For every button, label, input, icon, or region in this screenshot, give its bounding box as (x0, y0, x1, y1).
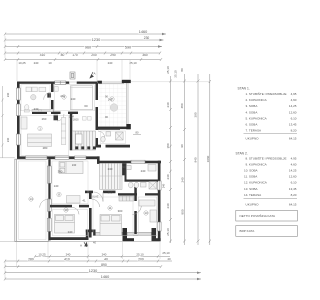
svg-text:300: 300 (118, 209, 123, 213)
wall y194 under bath2 (118, 193, 137, 195)
svg-text:140: 140 (54, 184, 59, 188)
dimension row 4 top segments (4, 52, 161, 55)
svg-text:1460: 1460 (101, 275, 109, 279)
wall bedroom mid x90 (89, 193, 92, 238)
svg-text:9. KUPAONICA: 9. KUPAONICA (246, 162, 268, 166)
svg-text:590: 590 (125, 45, 131, 49)
svg-text:260: 260 (108, 191, 113, 195)
dim right line 1 (169, 76, 172, 243)
svg-text:UKUPNO: UKUPNO (246, 137, 260, 141)
wall lower interior y206 (50, 205, 89, 208)
terrace railing top (99, 82, 124, 84)
svg-text:3. SOBA: 3. SOBA (246, 104, 259, 108)
svg-text:280: 280 (43, 146, 48, 150)
bath1 fixtures right (101, 132, 123, 142)
svg-text:11: 11 (108, 206, 111, 210)
left vertical dim line (2, 86, 4, 158)
svg-text:14,25: 14,25 (289, 104, 297, 108)
kitchen dark bits (54, 115, 59, 121)
svg-text:10: 10 (64, 208, 68, 212)
lower room1 furniture (67, 196, 81, 204)
entry wall lower y192 (85, 191, 116, 194)
svg-text:25,10: 25,10 (136, 253, 144, 257)
door arc bath1 (98, 131, 105, 138)
svg-text:6. SOBA: 6. SOBA (246, 123, 259, 127)
dim right line 3 (197, 74, 200, 245)
extension lines top (5, 36, 130, 81)
kitchen counter (32, 109, 53, 112)
wall bedroom right x135 (134, 187, 137, 234)
skylight rects corridor (83, 117, 92, 121)
svg-text:4,95: 4,95 (291, 156, 297, 160)
section marker A bottom (84, 242, 87, 247)
svg-text:940: 940 (194, 157, 198, 162)
dim row bottom 890 (4, 265, 162, 268)
svg-text:12,60: 12,60 (289, 175, 297, 179)
stairs upper (72, 131, 95, 150)
svg-text:64,15: 64,15 (289, 137, 297, 141)
svg-text:240: 240 (66, 253, 71, 257)
entry door arc (94, 192, 104, 202)
stan 1 rule (244, 132, 298, 134)
svg-text:200: 200 (138, 257, 144, 261)
terrace railing right (126, 83, 128, 124)
interior dim texts (34, 97, 146, 234)
corner bottom right L (152, 228, 161, 241)
svg-text:5. KUPAONICA: 5. KUPAONICA (246, 116, 268, 120)
svg-text:14. TERASA: 14. TERASA (244, 193, 262, 197)
svg-text:2. KUPAONICA: 2. KUPAONICA (246, 98, 268, 102)
wall lower top right y161 (97, 156, 161, 164)
svg-text:260: 260 (42, 117, 47, 121)
svg-text:390: 390 (194, 112, 198, 117)
extension line top wall right (131, 81, 209, 83)
window lower right b (157, 222, 161, 231)
svg-text:7. TERASA: 7. TERASA (246, 129, 262, 133)
svg-text:10,25: 10,25 (18, 61, 26, 65)
window left W2a (16, 88, 20, 100)
terrace bottom edge (15, 241, 161, 243)
pillar bottom (123, 228, 128, 239)
room label bed2 (108, 206, 112, 210)
svg-text:25,10: 25,10 (162, 251, 170, 255)
svg-text:230: 230 (144, 36, 150, 40)
stairs lower (100, 163, 123, 189)
svg-text:240: 240 (141, 169, 146, 173)
svg-text:240: 240 (71, 97, 76, 101)
svg-text:13: 13 (144, 211, 148, 215)
bed mid (100, 215, 122, 236)
window bottom glass doors a (96, 232, 123, 235)
svg-text:960: 960 (85, 45, 91, 49)
svg-text:290: 290 (110, 53, 116, 57)
svg-text:16/30: 16/30 (73, 119, 79, 121)
wall bottom of terrace room (96, 127, 131, 130)
stan 1 items (246, 91, 297, 133)
dim row bottom 1230 (4, 271, 201, 274)
svg-text:41: 41 (82, 199, 86, 203)
pillar terrace top-left (97, 81, 102, 84)
svg-text:890: 890 (101, 263, 107, 267)
wall lower right outer x158 (158, 161, 161, 241)
extension stub left mid (0, 157, 15, 159)
wall top outer (17, 82, 97, 84)
svg-text:240: 240 (68, 230, 73, 234)
room label terrace (29, 197, 33, 201)
bath1 fixtures room top-left (24, 87, 46, 112)
svg-text:240: 240 (166, 174, 170, 179)
door arc right bedroom (132, 206, 141, 215)
window annotation mid right (133, 134, 141, 136)
terrace circle table (110, 104, 118, 112)
wardrobe mid bedroom (119, 196, 134, 201)
extension stub left bottom (0, 241, 15, 243)
door arc mid bedroom (92, 199, 100, 207)
svg-text:A: A (94, 72, 96, 76)
svg-text:240: 240 (6, 92, 10, 97)
netto box (236, 210, 298, 221)
window annotation left (6, 92, 10, 142)
svg-text:240: 240 (162, 183, 166, 188)
svg-text:180: 180 (166, 143, 170, 148)
dim right line 2 (183, 74, 186, 245)
svg-text:240: 240 (166, 203, 170, 208)
svg-text:A: A (80, 244, 82, 248)
svg-text:1230: 1230 (92, 38, 100, 42)
svg-text:240: 240 (102, 253, 107, 257)
room label bed1 (64, 208, 68, 212)
svg-text:240: 240 (6, 137, 10, 142)
svg-text:410: 410 (40, 53, 46, 57)
svg-text:1460: 1460 (139, 30, 147, 34)
door arc corridor (57, 114, 64, 121)
stair posts (75, 146, 96, 149)
wall bath1 horizontal y128 (98, 128, 120, 130)
window bottom glass doors b (127, 232, 152, 235)
pillar top right (122, 80, 131, 83)
svg-text:240: 240 (108, 61, 113, 65)
bath2 wall bottom y180 (125, 180, 159, 182)
section marker A top (90, 72, 93, 78)
shaft block (47, 93, 51, 97)
brp box (236, 226, 298, 237)
door gap top (69, 81, 77, 83)
stan 2 items (244, 155, 297, 197)
svg-text:13,45: 13,45 (289, 123, 297, 127)
svg-text:80: 80 (180, 68, 184, 72)
svg-text:90: 90 (122, 165, 126, 169)
svg-text:240: 240 (34, 107, 39, 111)
bath2 fixtures (127, 165, 157, 190)
svg-text:11. SOBA: 11. SOBA (244, 175, 258, 179)
dim right line 4 (209, 74, 211, 245)
wall mid dividing y157 (17, 156, 100, 159)
svg-text:4,95: 4,95 (291, 92, 297, 96)
svg-text:4,60: 4,60 (291, 162, 297, 166)
room label 1 (29, 95, 148, 215)
svg-text:25,10: 25,10 (129, 61, 137, 65)
svg-text:1060: 1060 (206, 155, 210, 162)
svg-text:240: 240 (34, 61, 39, 65)
svg-text:240: 240 (181, 177, 185, 182)
room2 small cab (54, 87, 58, 92)
window mid wall a (26, 156, 48, 159)
svg-text:8,20: 8,20 (291, 193, 297, 197)
svg-text:14: 14 (29, 197, 33, 201)
svg-text:6,10: 6,10 (291, 116, 297, 120)
svg-text:4,60: 4,60 (291, 98, 297, 102)
wall left outer upper (17, 82, 20, 158)
room label 2 (62, 95, 66, 99)
wall interior vertical x96 (96, 83, 99, 147)
dim mini row bottom (34, 255, 170, 258)
dim row bottom segments (4, 260, 172, 263)
svg-text:13,45: 13,45 (289, 187, 297, 191)
svg-text:14,25: 14,25 (289, 169, 297, 173)
window mid wall b (55, 156, 86, 159)
svg-text:410: 410 (64, 257, 70, 261)
terrace dim texts (105, 95, 113, 120)
svg-text:STAN 1.: STAN 1. (238, 87, 250, 91)
window lower right a (157, 181, 161, 190)
svg-text:240: 240 (166, 102, 170, 107)
door arc room1 (72, 207, 79, 214)
window lower left a (47, 166, 51, 183)
bath2 wall left x125 (125, 163, 127, 180)
svg-text:8,20: 8,20 (291, 129, 297, 133)
living table (21, 117, 52, 146)
room floor outlines (21, 85, 157, 236)
svg-text:25,10: 25,10 (174, 70, 178, 78)
svg-text:UKUPNO: UKUPNO (246, 202, 260, 206)
svg-text:25,10: 25,10 (166, 66, 170, 74)
wall bath1 bottom y145 (96, 145, 131, 148)
svg-text:90: 90 (180, 144, 184, 148)
window left W2b (16, 104, 20, 116)
room label bed3 (144, 211, 148, 215)
room label 3 (110, 97, 114, 101)
svg-text:13. SOBA: 13. SOBA (244, 187, 259, 191)
svg-text:40: 40 (167, 257, 171, 261)
wall interior vertical x51 (51, 83, 54, 113)
svg-text:80: 80 (61, 53, 65, 57)
svg-text:STAN 2.: STAN 2. (236, 152, 248, 156)
terrace room hatch (99, 84, 126, 127)
desk right bedroom (139, 200, 157, 222)
svg-text:10. SOBA: 10. SOBA (244, 169, 259, 173)
dimension row 1 top 1460 (4, 33, 166, 36)
corner block terrace room (126, 124, 131, 129)
extension lines bottom (5, 241, 160, 280)
wall interior horizontal y112 (32, 112, 78, 114)
svg-text:800: 800 (181, 209, 185, 214)
svg-text:25,10: 25,10 (166, 228, 170, 236)
svg-text:200: 200 (91, 53, 97, 57)
room label lower1 (57, 192, 61, 196)
dim row bottom 1460 (4, 278, 201, 281)
bed upper-left room stan2 (59, 162, 83, 174)
svg-text:360: 360 (142, 53, 148, 57)
svg-text:10: 10 (48, 61, 52, 65)
svg-text:8. STUBIŠTE I PREDSOBLJE: 8. STUBIŠTE I PREDSOBLJE (246, 155, 287, 160)
svg-text:240: 240 (108, 167, 113, 171)
window lower top (131, 160, 145, 163)
svg-text:1. STUBIŠTE I PREDSOBLJE: 1. STUBIŠTE I PREDSOBLJE (246, 91, 287, 96)
dimension row 2 top 1230/230 (4, 39, 164, 42)
chimney symbol (70, 72, 75, 79)
svg-text:12. KUPAONICA: 12. KUPAONICA (244, 181, 268, 185)
svg-text:10,25: 10,25 (38, 253, 46, 257)
svg-text:60: 60 (84, 104, 88, 108)
room2 void rect (70, 86, 92, 110)
svg-text:6,10: 6,10 (291, 181, 297, 185)
wall interior vertical x70 (70, 114, 73, 150)
wall lower left interior x48 (48, 159, 51, 240)
door arc terrace (40, 199, 48, 207)
stan 2 rule (244, 198, 298, 200)
window top W1 (55, 81, 66, 84)
window left W2c (16, 134, 20, 145)
svg-text:240: 240 (72, 163, 77, 167)
svg-text:2x14: 2x14 (69, 117, 75, 119)
dimension row 5 top window dims (4, 58, 162, 61)
svg-text:BRP KATA: BRP KATA (240, 229, 256, 233)
door arc room1 x51 (44, 92, 51, 99)
door terrace (47, 199, 51, 231)
svg-text:170: 170 (72, 53, 78, 57)
wall bottom step (86, 230, 96, 241)
wall bottom left y238 (48, 237, 88, 240)
svg-text:12,60: 12,60 (289, 110, 297, 114)
bed lower-left (55, 215, 75, 234)
svg-text:280: 280 (28, 257, 34, 261)
svg-text:NETTO POVRŠINA KATA: NETTO POVRŠINA KATA (240, 213, 277, 218)
svg-text:380: 380 (58, 170, 63, 174)
dimension row 3 top 960 (4, 45, 162, 48)
terrace outline (15, 159, 49, 241)
cabinet column living (61, 118, 66, 145)
svg-text:480: 480 (180, 103, 184, 108)
svg-text:1230: 1230 (89, 269, 97, 273)
svg-text:40: 40 (104, 257, 108, 261)
svg-text:4. SOBA: 4. SOBA (246, 110, 259, 114)
svg-text:64,15: 64,15 (289, 202, 297, 206)
wall stairs right x122 (122, 163, 125, 175)
